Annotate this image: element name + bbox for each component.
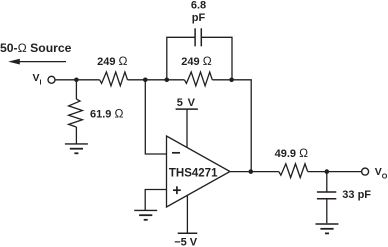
svg-text:VO: VO	[375, 166, 388, 180]
svg-text:THS4271: THS4271	[169, 168, 218, 180]
svg-text:49.9 Ω: 49.9 Ω	[275, 146, 308, 160]
svg-text:pF: pF	[192, 12, 206, 24]
svg-text:249 Ω: 249 Ω	[181, 54, 211, 68]
svg-text:61.9 Ω: 61.9 Ω	[90, 107, 123, 121]
svg-text:6.8: 6.8	[191, 0, 206, 12]
svg-text:249 Ω: 249 Ω	[97, 54, 127, 68]
svg-text:−5 V: −5 V	[174, 236, 198, 247]
svg-text:5 V: 5 V	[177, 97, 196, 109]
svg-text:VI: VI	[33, 72, 42, 86]
svg-text:33 pF: 33 pF	[342, 189, 371, 201]
svg-text:50-Ω Source: 50-Ω Source	[0, 41, 72, 55]
